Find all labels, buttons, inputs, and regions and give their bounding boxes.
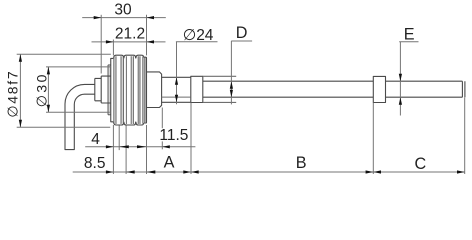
svg-text:∅48f7: ∅48f7 xyxy=(4,70,20,118)
svg-text:30: 30 xyxy=(114,2,132,19)
svg-text:4: 4 xyxy=(91,131,100,148)
svg-text:D: D xyxy=(236,24,248,42)
svg-text:8.5: 8.5 xyxy=(84,155,106,172)
svg-text:∅24: ∅24 xyxy=(183,27,214,44)
svg-text:A: A xyxy=(164,154,175,172)
svg-text:C: C xyxy=(415,155,427,173)
svg-text:B: B xyxy=(296,154,307,172)
svg-text:E: E xyxy=(404,26,415,44)
svg-text:∅30: ∅30 xyxy=(34,72,50,107)
svg-text:11.5: 11.5 xyxy=(159,127,188,144)
svg-text:21.2: 21.2 xyxy=(115,26,145,43)
